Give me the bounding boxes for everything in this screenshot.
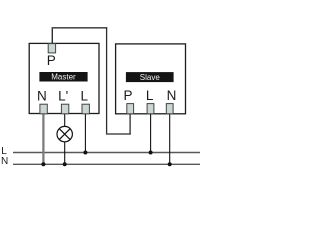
wire from Slave N terminal down to N bus [169,114,171,165]
wire from lamp down to N bus [64,142,66,165]
slave terminal P [127,104,134,114]
wire from Master L terminal down to L bus [84,114,86,153]
svg-text:Slave: Slave [140,73,161,82]
svg-text:L: L [80,88,88,103]
wire P-link riser from Master P terminal [51,27,53,44]
master terminal L [82,104,89,114]
svg-text:N: N [1,156,8,167]
lamp E1 [57,126,72,141]
svg-text:Master: Master [51,73,76,82]
junction dot on L bus at Master L wire [83,151,87,155]
wire from Slave L terminal down to L bus [150,114,152,153]
wire from Master L' terminal to lamp [64,114,66,127]
svg-text:L': L' [58,88,68,103]
wire P-link bottom horizontal run [106,133,131,135]
Master name bar [39,72,87,82]
svg-text:L: L [146,88,154,103]
junction dot on N bus at Master N wire [41,162,45,166]
master box U1 [29,43,99,113]
wire P-link drop between boxes [106,27,108,134]
svg-text:P: P [47,53,56,68]
N bus line [13,163,200,165]
master terminal P [48,44,55,53]
L bus line [13,152,200,154]
wire P-link top horizontal run [52,27,107,29]
slave terminal N [166,104,173,114]
junction dot on L bus at Slave L wire [149,151,153,155]
master terminal L' [61,104,68,114]
wire P-link riser to Slave P terminal [129,113,131,135]
master terminal N [40,104,47,114]
svg-text:P: P [123,88,132,103]
junction dot on N bus at lamp wire [63,162,67,166]
wire from Master N terminal down to N bus [42,114,44,164]
Slave name bar [126,72,174,82]
slave terminal L [147,104,154,114]
svg-text:N: N [37,88,47,103]
junction dot on N bus at Slave N wire [168,162,172,166]
slave box U2 [116,44,186,114]
svg-text:N: N [167,88,177,103]
